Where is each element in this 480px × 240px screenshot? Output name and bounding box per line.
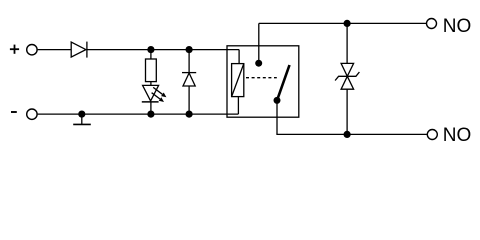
terminal plus input [27, 45, 37, 55]
switch blade [277, 65, 290, 100]
relay K1 box [227, 46, 299, 117]
diode D1 [71, 42, 87, 58]
node ground junction [78, 111, 85, 118]
wire coil drop [238, 50, 240, 64]
wire bottom right [276, 133, 427, 135]
label - [11, 111, 17, 113]
wire bottom rail [38, 113, 239, 115]
node bottom flyback branch [186, 111, 193, 118]
node TVS top [344, 20, 351, 27]
wire actuation dashed [246, 77, 277, 79]
svg-text:NO: NO [443, 125, 472, 146]
wire TVS bottom [346, 89, 348, 134]
terminal NO bottom [427, 130, 437, 140]
terminal NO top [427, 19, 437, 29]
node switch fixed contact [255, 60, 262, 67]
wire switch common up [258, 23, 260, 63]
LED D3 [142, 85, 167, 102]
node top flyback branch [186, 46, 193, 53]
wire top rail left [38, 49, 72, 51]
wire flyback branch bottom [188, 86, 190, 114]
label + [10, 45, 19, 54]
node switch pivot contact [274, 97, 281, 104]
wire coil to bottom rail [237, 97, 239, 115]
terminal minus input [27, 109, 37, 119]
node TVS bottom [344, 131, 351, 138]
wire resistor to LED [150, 82, 152, 86]
ground [73, 114, 91, 124]
wire switch pivot down [276, 100, 278, 134]
wire resistor branch top [150, 50, 152, 59]
wire TVS top [346, 23, 348, 63]
wire top rail right [87, 49, 239, 51]
svg-text:NO: NO [443, 16, 472, 37]
diode D2 flyback [182, 73, 196, 86]
resistor R1 [146, 59, 157, 82]
relay coil [232, 64, 244, 97]
wire LED to bottom rail [150, 102, 152, 114]
node bottom resistor branch [147, 111, 154, 118]
wire top right [259, 22, 427, 24]
TVS suppressor D4 [335, 63, 359, 89]
wire flyback branch top [188, 50, 190, 73]
node top resistor branch [147, 46, 154, 53]
